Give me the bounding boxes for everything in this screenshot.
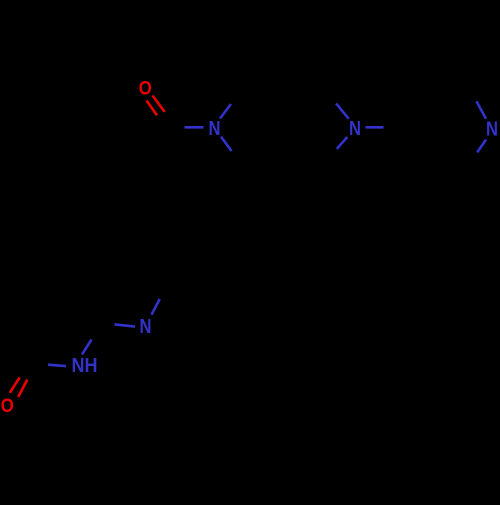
svg-text:N: N (486, 119, 498, 141)
bond C=O2 line 1 (oxygen half) (10, 377, 20, 392)
bond N5 up-right to ring C (nitrogen half) (82, 340, 92, 355)
bond N1 down-right ring bond (nitrogen half) (221, 137, 232, 151)
bond C=O1 line 2 (oxygen half) (153, 96, 165, 112)
bond N3 down-left ring bond (nitrogen half) (477, 140, 486, 153)
svg-text:N: N (349, 118, 361, 140)
bond N2 right horizontal to ring C (nitrogen half) (366, 126, 384, 129)
bond N5 left to formyl C (nitrogen half) (48, 365, 66, 366)
bond N2 down-left ring bond (nitrogen half) (337, 137, 348, 149)
bond N4 up-right ring bond (nitrogen half) (152, 299, 160, 315)
bond C=O1 line 1 (oxygen half) (147, 101, 158, 116)
svg-text:N: N (140, 316, 152, 338)
bond C=O2 line 2 (oxygen half) (18, 380, 27, 398)
bond N1 up-right ring bond (nitrogen half) (220, 104, 231, 119)
bond N2 up-left ring bond (nitrogen half) (336, 103, 349, 118)
bond N4 left ring bond (nitrogen half) (115, 324, 136, 326)
bond N3 up-left ring bond (nitrogen half) (476, 101, 486, 119)
svg-text:O: O (1, 396, 14, 417)
svg-text:NH: NH (72, 355, 98, 377)
svg-text:O: O (139, 78, 152, 99)
svg-text:N: N (209, 118, 221, 140)
bond N1-C(=O) left horizontal (nitrogen half) (185, 126, 204, 129)
